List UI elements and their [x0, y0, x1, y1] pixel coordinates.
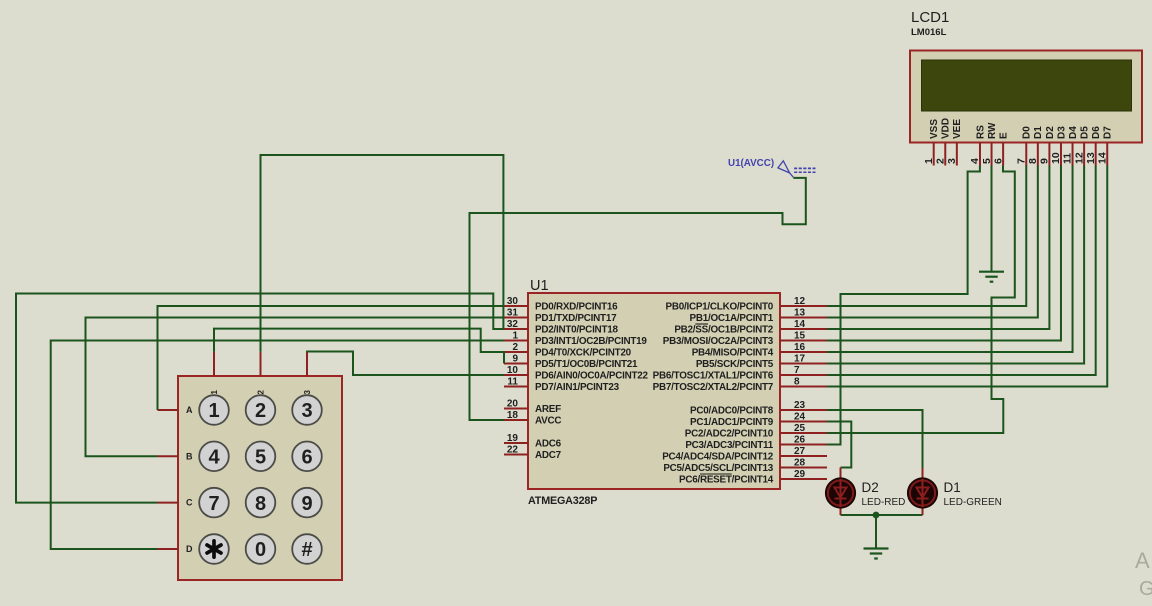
wire keypad column 3 to U1 PD6: [307, 352, 504, 376]
U1 pin name PC5/ADC5/SCL/PCINT13: [663, 463, 773, 474]
svg-text:24: 24: [794, 411, 806, 422]
wire keypad column 1 to U1 PD4/PD5: [214, 329, 504, 364]
wire U1 AVCC to power flag: [470, 178, 806, 420]
U1 left pin 19 (ADC6) stub: [504, 442, 528, 444]
wire U1 PB6 to LCD D6: [827, 166, 1096, 376]
svg-text:D4: D4: [1068, 126, 1079, 139]
keypad row label B: [186, 451, 193, 461]
U1 pin name PD0/RXD/PCINT16: [535, 302, 618, 313]
svg-text:22: 22: [507, 444, 519, 455]
svg-text:31: 31: [507, 307, 519, 318]
LED D1 reference label: [944, 480, 961, 495]
svg-text:D2: D2: [1045, 126, 1056, 139]
keypad row C pin stub: [158, 502, 179, 504]
svg-text:D0: D0: [1022, 126, 1033, 139]
svg-text:PD3/INT1/OC2B/PCINT19: PD3/INT1/OC2B/PCINT19: [535, 336, 647, 347]
U1 pin number 31: [507, 307, 519, 318]
LCD1 pin number 1: [923, 158, 935, 164]
svg-text:PC0/ADC0/PCINT8: PC0/ADC0/PCINT8: [690, 406, 774, 417]
U1 left pin 11 (PD7/AIN1/PCINT23) stub: [504, 386, 528, 388]
U1 pin number 30: [507, 296, 519, 307]
U1 pin name AVCC: [535, 416, 561, 427]
U1 pin name PD7/AIN1/PCINT23: [535, 382, 620, 393]
U1 right pin 16 (PB4/MISO/PCINT4) stub: [780, 351, 827, 353]
LCD1 pin 3 (VEE) stub: [956, 143, 958, 166]
keypad button 1: [199, 395, 229, 425]
U1 pin number 18: [507, 410, 519, 421]
keypad button 6: [292, 442, 322, 472]
LCD1 pin 6 (E) stub: [1002, 143, 1004, 166]
LCD1 pin 1 (VSS) stub: [933, 143, 935, 166]
svg-text:PB0/ICP1/CLKO/PCINT0: PB0/ICP1/CLKO/PCINT0: [666, 302, 774, 313]
LCD1 pin name VDD: [941, 118, 952, 139]
svg-text:A: A: [1135, 548, 1150, 573]
LCD1 pin 2 (VDD) stub: [944, 143, 946, 166]
LCD1 pin number 11: [1062, 153, 1074, 164]
svg-text:D1: D1: [1033, 126, 1044, 139]
U1 left pin 22 (ADC7) stub: [504, 454, 528, 456]
LED D2 reference label: [862, 480, 879, 495]
svg-text:5: 5: [981, 158, 993, 164]
LCD1 value label LM016L: [911, 27, 947, 38]
U1 pin name PB6/TOSC1/XTAL1/PCINT6: [653, 371, 774, 382]
LCD1 pin 7 (D0) stub: [1025, 143, 1027, 166]
keypad button 2: [246, 395, 276, 425]
svg-text:PC2/ADC2/PCINT10: PC2/ADC2/PCINT10: [685, 429, 774, 440]
svg-text:16: 16: [794, 342, 806, 353]
power flag U1(AVCC) label: [728, 158, 774, 169]
wire LCD RW to ground: [991, 166, 993, 272]
svg-text:2: 2: [512, 342, 518, 353]
svg-text:14: 14: [794, 319, 806, 330]
svg-text:3: 3: [301, 400, 312, 422]
svg-text:29: 29: [794, 469, 806, 480]
svg-text:9: 9: [1039, 158, 1051, 164]
U1 pin name PD3/INT1/OC2B/PCINT19: [535, 336, 647, 347]
svg-text:30: 30: [507, 296, 519, 307]
svg-text:7: 7: [794, 365, 800, 376]
svg-text:12: 12: [1073, 152, 1085, 164]
LCD1 pin name D2: [1045, 126, 1056, 139]
U1 pin number 25: [794, 423, 806, 434]
U1 pin number 27: [794, 446, 806, 457]
svg-text:A: A: [186, 405, 193, 415]
LED D1 value label: [944, 497, 1002, 508]
LCD1 pin name D3: [1056, 126, 1067, 139]
svg-text:G: G: [1139, 578, 1152, 600]
svg-text:11: 11: [1062, 153, 1074, 164]
U1 left pin 9 (PD5/T1/OC0B/PCINT21) stub: [504, 363, 528, 365]
LCD1 pin 4 (RS) stub: [979, 143, 981, 166]
keypad button 4: [199, 442, 229, 472]
svg-text:1: 1: [512, 330, 518, 341]
U1 right pin 7 (PB6/TOSC1/XTAL1/PCINT6) stub: [780, 374, 827, 376]
LCD1 pin name VEE: [952, 119, 963, 139]
U1 right pin 28 (PC5/ADC5/SCL/PCINT13) stub: [780, 467, 827, 469]
junction dot at LED cathode net: [873, 512, 880, 519]
U1 pin number 20: [507, 398, 519, 409]
U1 pin number 12: [794, 296, 806, 307]
wire U1 PB0 to LCD D0: [827, 166, 1026, 307]
keypad column label 2: [257, 389, 266, 394]
U1 pin name PD6/AIN0/OC0A/PCINT22: [535, 371, 648, 382]
keypad row label C: [186, 498, 193, 508]
U1 pin number 29: [794, 469, 806, 480]
svg-text:4: 4: [208, 447, 220, 469]
svg-text:15: 15: [794, 330, 806, 341]
keypad column 3 pin stub: [306, 352, 308, 376]
LED D1 (LED-GREEN): [907, 477, 938, 508]
LCD1 pin name RW: [987, 122, 998, 139]
svg-text:RS: RS: [975, 125, 986, 139]
LCD1 pin name D4: [1068, 126, 1079, 139]
svg-text:4: 4: [969, 158, 981, 164]
U1 pin number 26: [794, 434, 806, 445]
svg-text:PB4/MISO/PCINT4: PB4/MISO/PCINT4: [692, 348, 774, 359]
keypad button 0: [246, 534, 276, 564]
svg-text:#: #: [301, 539, 312, 561]
LCD1 pin name RS: [975, 125, 986, 139]
svg-text:27: 27: [794, 446, 806, 457]
keypad column label 1: [210, 389, 219, 394]
overline on RESET of PC6 pin name: [700, 473, 732, 475]
keypad button 3: [292, 395, 322, 425]
keypad button 5: [246, 442, 276, 472]
LCD1 pin 14 (D7) stub: [1106, 143, 1108, 166]
U1 right pin 23 (PC0/ADC0/PCINT8) stub: [780, 409, 827, 411]
U1 pin name PD1/TXD/PCINT17: [535, 313, 617, 324]
U1 right pin 26 (PC3/ADC3/PCINT11) stub: [780, 444, 827, 446]
U1 right pin 13 (PB1/OC1A/PCINT1) stub: [780, 317, 827, 319]
wire keypad row C to U1 PD2: [16, 294, 504, 503]
svg-text:3: 3: [946, 158, 958, 164]
U1 pin number 19: [507, 433, 519, 444]
keypad button 9: [292, 488, 322, 518]
svg-text:AREF: AREF: [535, 404, 561, 415]
svg-text:AVCC: AVCC: [535, 416, 561, 427]
keypad column 1 pin stub: [213, 352, 215, 376]
svg-text:C: C: [186, 498, 193, 508]
U1 right pin 15 (PB3/MOSI/OC2A/PCINT3) stub: [780, 340, 827, 342]
wire U1 PB3 to LCD D3: [827, 166, 1061, 341]
svg-text:10: 10: [507, 365, 519, 376]
svg-text:5: 5: [255, 447, 266, 469]
svg-text:D1: D1: [944, 480, 961, 495]
keypad row D pin stub: [158, 548, 179, 550]
wire LCD E to U1 PC2: [827, 166, 1015, 434]
svg-text:9: 9: [512, 353, 518, 364]
svg-text:1: 1: [923, 158, 935, 164]
LCD1 pin number 8: [1027, 158, 1039, 164]
keypad column 2 pin stub: [260, 352, 262, 376]
U1 pin number 16: [794, 342, 806, 353]
LCD1 pin name D0: [1022, 126, 1033, 139]
svg-text:PD2/INT0/PCINT18: PD2/INT0/PCINT18: [535, 325, 618, 336]
U1 pin name PB7/TOSC2/XTAL2/PCINT7: [653, 382, 774, 393]
LED D2 value label: [862, 497, 906, 508]
corner text fragment A: [1135, 548, 1150, 573]
svg-text:PB7/TOSC2/XTAL2/PCINT7: PB7/TOSC2/XTAL2/PCINT7: [653, 382, 774, 393]
svg-text:PB2/SS/OC1B/PCINT2: PB2/SS/OC1B/PCINT2: [674, 325, 773, 336]
U1 pin number 14: [794, 319, 806, 330]
U1 pin name PB5/SCK/PCINT5: [696, 359, 774, 370]
svg-text:PC5/ADC5/SCL/PCINT13: PC5/ADC5/SCL/PCINT13: [663, 463, 773, 474]
LCD1 screen: [922, 60, 1132, 111]
LCD1 reference label: [911, 9, 949, 26]
svg-text:U1: U1: [530, 278, 549, 294]
IC U1 body (ATMEGA328P microcontroller): [528, 293, 780, 489]
keypad button 8: [246, 488, 276, 518]
LCD1 pin number 5: [981, 158, 993, 164]
svg-text:1: 1: [210, 389, 219, 394]
wire keypad row D to U1 PD3: [51, 341, 504, 550]
U1 pin number 28: [794, 457, 806, 468]
LCD1 pin 11 (D4) stub: [1072, 143, 1074, 166]
U1 value label ATMEGA328P: [528, 495, 597, 507]
U1 left pin 18 (AVCC) stub: [504, 419, 528, 421]
U1 right pin 27 (PC4/ADC4/SDA/PCINT12) stub: [780, 455, 827, 457]
wire U1 PC1 to LED D2: [827, 422, 851, 468]
svg-text:D2: D2: [862, 480, 879, 495]
ground symbol under LEDs: [864, 549, 889, 559]
svg-text:2: 2: [255, 400, 266, 422]
U1 pin name PD2/INT0/PCINT18: [535, 325, 618, 336]
U1 pin number 10: [507, 365, 519, 376]
U1 pin name ADC6: [535, 439, 562, 450]
overline on SS of PB2 pin name: [695, 323, 708, 325]
U1 right pin 14 (PB2/SS/OC1B/PCINT2) stub: [780, 328, 827, 330]
U1 left pin 32 (PD2/INT0/PCINT18) stub: [504, 328, 528, 330]
svg-text:6: 6: [992, 158, 1004, 164]
LCD1 pin number 3: [946, 158, 958, 164]
U1 right pin 29 (PC6/RESET/PCINT14) stub: [780, 478, 827, 480]
U1 pin name PB2/SS/OC1B/PCINT2: [674, 325, 773, 336]
U1 pin name PB1/OC1A/PCINT1: [689, 313, 773, 324]
svg-text:28: 28: [794, 457, 806, 468]
wire junction to ground: [875, 515, 877, 548]
LCD1 pin number 10: [1050, 152, 1062, 164]
wire U1 PB1 to LCD D1: [827, 166, 1038, 318]
wire U1 PB2 to LCD D2: [827, 166, 1049, 330]
keypad button *: [199, 534, 229, 564]
wire U1 PB5 to LCD D5: [827, 166, 1084, 364]
LCD1 pin name D7: [1103, 126, 1114, 139]
U1 pin number 22: [507, 444, 519, 455]
svg-text:23: 23: [794, 400, 806, 411]
LED D1 cathode stub: [922, 506, 924, 515]
svg-text:PB1/OC1A/PCINT1: PB1/OC1A/PCINT1: [689, 313, 773, 324]
U1 pin name AREF: [535, 404, 561, 415]
U1 pin number 7: [794, 365, 800, 376]
svg-text:25: 25: [794, 423, 806, 434]
svg-text:ATMEGA328P: ATMEGA328P: [528, 495, 597, 507]
LCD1 pin number 12: [1073, 152, 1085, 164]
U1 reference label: [530, 278, 549, 294]
keypad row A pin stub: [158, 409, 179, 411]
wire keypad row A to U1 PD0: [158, 306, 505, 410]
U1 pin name PC2/ADC2/PCINT10: [685, 429, 774, 440]
LCD1 pin name VSS: [929, 119, 940, 139]
svg-text:13: 13: [1085, 152, 1097, 164]
wire U1 PB7 to LCD D7: [827, 166, 1107, 387]
U1 pin number 17: [794, 353, 806, 364]
U1 pin number 9: [512, 353, 518, 364]
svg-text:ADC6: ADC6: [535, 439, 562, 450]
keypad row label D: [186, 544, 193, 554]
U1 pin name PD4/T0/XCK/PCINT20: [535, 348, 632, 359]
svg-text:20: 20: [507, 398, 519, 409]
svg-text:LM016L: LM016L: [911, 27, 947, 38]
U1 pin number 15: [794, 330, 806, 341]
wire U1 PB4 to LCD D4: [827, 166, 1073, 353]
LCD1 body: [910, 51, 1142, 143]
U1 pin name PC3/ADC3/PCINT11: [685, 440, 773, 451]
svg-text:1: 1: [208, 400, 219, 422]
svg-text:RW: RW: [987, 122, 998, 139]
LED D2 cathode stub: [840, 506, 842, 515]
svg-text:D3: D3: [1056, 126, 1067, 139]
svg-text:VSS: VSS: [929, 119, 940, 139]
svg-text:ADC7: ADC7: [535, 450, 562, 461]
svg-text:PD1/TXD/PCINT17: PD1/TXD/PCINT17: [535, 313, 617, 324]
U1 pin name PC4/ADC4/SDA/PCINT12: [662, 452, 774, 463]
LCD1 pin number 2: [934, 158, 946, 164]
svg-text:PD6/AIN0/OC0A/PCINT22: PD6/AIN0/OC0A/PCINT22: [535, 371, 648, 382]
svg-text:PC3/ADC3/PCINT11: PC3/ADC3/PCINT11: [685, 440, 773, 451]
svg-text:VEE: VEE: [952, 119, 963, 139]
svg-text:PD4/T0/XCK/PCINT20: PD4/T0/XCK/PCINT20: [535, 348, 632, 359]
U1 left pin 2 (PD4/T0/XCK/PCINT20) stub: [504, 351, 528, 353]
U1 pin number 2: [512, 342, 518, 353]
svg-text:PC4/ADC4/SDA/PCINT12: PC4/ADC4/SDA/PCINT12: [662, 452, 774, 463]
keypad button 7: [199, 488, 229, 518]
wire keypad row B to U1 PD1: [86, 318, 505, 457]
LCD1 pin 8 (D1) stub: [1037, 143, 1039, 166]
U1 pin number 32: [507, 319, 519, 330]
svg-text:26: 26: [794, 434, 806, 445]
U1 pin number 23: [794, 400, 806, 411]
U1 right pin 25 (PC2/ADC2/PCINT10) stub: [780, 432, 827, 434]
svg-text:PB3/MOSI/OC2A/PCINT3: PB3/MOSI/OC2A/PCINT3: [663, 336, 774, 347]
svg-text:19: 19: [507, 433, 519, 444]
svg-text:PC6/RESET/PCINT14: PC6/RESET/PCINT14: [679, 475, 774, 486]
svg-text:PD7/AIN1/PCINT23: PD7/AIN1/PCINT23: [535, 382, 620, 393]
svg-text:U1(AVCC): U1(AVCC): [728, 158, 774, 169]
LED D2 anode stub: [840, 468, 842, 481]
LCD1 pin 9 (D2) stub: [1048, 143, 1050, 166]
U1 pin name ADC7: [535, 450, 562, 461]
svg-text:PD0/RXD/PCINT16: PD0/RXD/PCINT16: [535, 302, 618, 313]
U1 pin number 11: [507, 376, 518, 387]
svg-text:13: 13: [794, 307, 806, 318]
svg-text:6: 6: [301, 447, 312, 469]
U1 right pin 12 (PB0/ICP1/CLKO/PCINT0) stub: [780, 305, 827, 307]
U1 left pin 31 (PD1/TXD/PCINT17) stub: [504, 317, 528, 319]
LCD1 pin number 14: [1096, 152, 1108, 164]
U1 pin name PC1/ADC1/PCINT9: [690, 417, 774, 428]
svg-text:LED-RED: LED-RED: [862, 497, 906, 508]
keypad body: [178, 376, 342, 580]
svg-text:8: 8: [255, 493, 266, 515]
LCD1 pin number 6: [992, 158, 1004, 164]
svg-text:32: 32: [507, 319, 519, 330]
LCD1 pin number 7: [1015, 158, 1027, 164]
LED D2 (LED-RED): [825, 477, 856, 508]
svg-text:8: 8: [794, 376, 800, 387]
LCD1 pin number 13: [1085, 152, 1097, 164]
svg-text:LED-GREEN: LED-GREEN: [944, 497, 1002, 508]
U1 left pin 1 (PD3/INT1/OC2B/PCINT19) stub: [504, 340, 528, 342]
U1 right pin 8 (PB7/TOSC2/XTAL2/PCINT7) stub: [780, 386, 827, 388]
wire LCD RS to U1 PC3: [827, 166, 980, 445]
svg-text:9: 9: [301, 493, 312, 515]
svg-text:17: 17: [794, 353, 806, 364]
LCD1 pin 13 (D6) stub: [1095, 143, 1097, 166]
keypad button #: [292, 534, 322, 564]
svg-text:VDD: VDD: [941, 118, 952, 139]
svg-text:PD5/T1/OC0B/PCINT21: PD5/T1/OC0B/PCINT21: [535, 359, 638, 370]
U1 pin name PC6/RESET/PCINT14: [679, 475, 774, 486]
U1 pin name PB4/MISO/PCINT4: [692, 348, 774, 359]
wire keypad column 2 to U1 PD2: [261, 155, 504, 352]
svg-text:7: 7: [1015, 158, 1027, 164]
LCD1 pin name D5: [1080, 126, 1091, 139]
keypad row label A: [186, 405, 193, 415]
svg-text:14: 14: [1096, 152, 1108, 164]
U1 pin name PD5/T1/OC0B/PCINT21: [535, 359, 638, 370]
keypad row B pin stub: [158, 455, 179, 457]
svg-text:2: 2: [934, 158, 946, 164]
U1 pin number 1: [512, 330, 518, 341]
LCD1 pin name D1: [1033, 126, 1044, 139]
U1 pin name PB0/ICP1/CLKO/PCINT0: [666, 302, 774, 313]
LCD1 pin 5 (RW) stub: [991, 143, 993, 166]
U1 left pin 20 (AREF) stub: [504, 408, 528, 410]
U1 left pin 30 (PD0/RXD/PCINT16) stub: [504, 305, 528, 307]
U1 pin number 8: [794, 376, 800, 387]
LCD1 pin 12 (D5) stub: [1083, 143, 1085, 166]
svg-text:7: 7: [208, 493, 219, 515]
LCD1 pin name D6: [1091, 126, 1102, 139]
LCD1 pin name E: [999, 132, 1010, 139]
svg-text:LCD1: LCD1: [911, 9, 949, 26]
svg-text:8: 8: [1027, 158, 1039, 164]
U1 left pin 10 (PD6/AIN0/OC0A/PCINT22) stub: [504, 374, 528, 376]
LCD1 pin 10 (D3) stub: [1060, 143, 1062, 166]
svg-text:D: D: [186, 544, 193, 554]
svg-text:D5: D5: [1080, 126, 1091, 139]
svg-text:18: 18: [507, 410, 519, 421]
LED D1 anode stub: [922, 468, 924, 480]
U1 right pin 24 (PC1/ADC1/PCINT9) stub: [780, 421, 827, 423]
keypad column label 3: [303, 389, 312, 394]
svg-text:10: 10: [1050, 152, 1062, 164]
svg-text:3: 3: [303, 389, 312, 394]
ground symbol under LCD RW: [979, 272, 1004, 282]
svg-text:D7: D7: [1103, 126, 1114, 139]
svg-text:E: E: [999, 132, 1010, 139]
svg-text:PB6/TOSC1/XTAL1/PCINT6: PB6/TOSC1/XTAL1/PCINT6: [653, 371, 774, 382]
wire LED cathodes join: [841, 514, 923, 516]
wire U1 PC0 to LED D1: [827, 410, 923, 468]
U1 pin name PB3/MOSI/OC2A/PCINT3: [663, 336, 774, 347]
LCD1 pin number 9: [1039, 158, 1051, 164]
svg-text:PB5/SCK/PCINT5: PB5/SCK/PCINT5: [696, 359, 774, 370]
U1 right pin 17 (PB5/SCK/PCINT5) stub: [780, 363, 827, 365]
svg-text:2: 2: [257, 389, 266, 394]
corner text fragment G: [1139, 578, 1152, 600]
U1 pin number 24: [794, 411, 806, 422]
